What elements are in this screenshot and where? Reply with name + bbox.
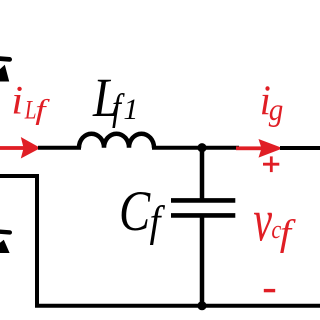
capacitor Cf top plate bbox=[171, 198, 235, 203]
label i_Lf bbox=[11, 77, 23, 122]
svg-text:f: f bbox=[35, 95, 50, 126]
diode D1 cathode bar (top-left, cropped) bbox=[0, 58, 10, 59]
svg-text:v: v bbox=[253, 188, 272, 254]
node junction bottom (capacitor to bottom rail) bbox=[197, 301, 206, 310]
label Lf1 bbox=[92, 68, 119, 129]
svg-text:f: f bbox=[150, 197, 166, 245]
current arrow i_Lf bbox=[0, 137, 41, 159]
capacitor Cf top lead bbox=[200, 146, 205, 199]
diode D1 anode triangle (top-left, cropped) bbox=[0, 65, 9, 82]
diode D2 cathode bar (bottom-left, cropped) bbox=[0, 231, 10, 232]
label v_cf bbox=[253, 188, 272, 254]
label v_cf subscript f bbox=[280, 213, 297, 254]
label i_Lf subscript f bbox=[35, 95, 50, 126]
wire: main horizontal, inductor to junction to arrow i_g bbox=[152, 146, 239, 150]
label Cf bbox=[119, 181, 151, 243]
svg-text:i: i bbox=[11, 77, 23, 122]
wire: top-left horizontal segment bbox=[0, 174, 39, 178]
label i_g subscript g bbox=[269, 92, 284, 128]
svg-text:g: g bbox=[269, 92, 284, 128]
wire: main horizontal, arrow to inductor bbox=[38, 146, 81, 150]
wire: left vertical segment bbox=[35, 174, 39, 306]
diode D2 anode triangle (bottom-left, cropped) bbox=[0, 240, 10, 253]
label Cf subscript f bbox=[150, 197, 166, 245]
label i_Lf subscript L bbox=[24, 97, 37, 126]
polarity minus sign bbox=[264, 289, 275, 292]
svg-text:f: f bbox=[280, 213, 297, 254]
label v_cf subscript c bbox=[271, 215, 281, 244]
svg-text:1: 1 bbox=[123, 93, 138, 126]
label Lf1 subscript f bbox=[112, 87, 125, 129]
wire: bottom horizontal rail bbox=[35, 304, 320, 308]
svg-text:C: C bbox=[119, 181, 151, 243]
capacitor Cf bottom lead bbox=[200, 217, 205, 306]
label Lf1 subscript 1 bbox=[123, 93, 138, 126]
capacitor Cf bottom plate bbox=[171, 213, 235, 218]
current arrow i_g bbox=[236, 139, 283, 158]
polarity plus sign bbox=[263, 156, 279, 172]
wire: main horizontal, right of arrow i_g bbox=[280, 146, 320, 150]
label i_g bbox=[260, 76, 271, 123]
node junction top (wire to capacitor) bbox=[197, 143, 206, 152]
inductor Lf1 bbox=[79, 134, 154, 148]
